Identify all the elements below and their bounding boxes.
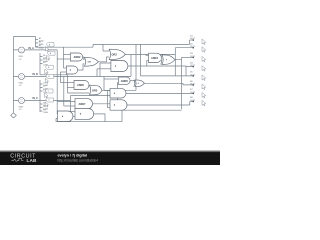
wire G1 input 1 [64, 54, 71, 56]
svg-text:OUT1: OUT1 [190, 83, 196, 85]
wire ANDdot2 in2 [97, 68, 111, 70]
flag input C [45, 98, 53, 107]
voltage source V3 [19, 98, 25, 104]
wire G1 input 2 [57, 58, 70, 60]
wire pair2 out / flag6 feed [144, 83, 193, 85]
svg-text:IN_B: IN_B [33, 74, 39, 76]
AND gate ANDdot2 [111, 61, 128, 72]
AND gate AND3 [149, 53, 162, 62]
wire left ground bus [13, 37, 15, 113]
wire V70.5 column [70, 96, 72, 112]
wire G3 input 1 [64, 67, 67, 69]
ground [11, 113, 17, 118]
wire V107.5 [107, 91, 109, 108]
flag input B [45, 74, 53, 83]
output flag 3 [190, 53, 206, 62]
svg-text:AND4: AND4 [151, 56, 159, 60]
wire row1 source [14, 49, 58, 51]
output flag 4 [190, 62, 206, 71]
output flag 5 [190, 72, 206, 81]
wire row2 source [14, 76, 132, 78]
wire fanout3 stubs [40, 84, 43, 91]
wire DgA in2 [71, 95, 111, 97]
wire G3 out jog [78, 64, 85, 70]
wire G6 in1 [57, 101, 75, 103]
wire top bus y44 [93, 43, 190, 45]
svg-text:IN_C: IN_C [33, 98, 39, 100]
svg-text:OUT1: OUT1 [190, 46, 196, 48]
wire pair2 in1 [104, 78, 118, 80]
wire G7 out [73, 115, 75, 117]
output flag 2 [190, 44, 206, 53]
wire G5 out riser [102, 44, 136, 90]
svg-text:AND6: AND6 [121, 79, 129, 83]
wire fanout3 vertical [39, 80, 41, 101]
wire flag2 feed [175, 48, 193, 76]
wire pair2 link [126, 80, 135, 82]
wire flag1 feed [190, 40, 194, 44]
wire G4 out [88, 84, 91, 86]
wire top-left loop [14, 36, 36, 38]
wire row3 source [14, 100, 71, 102]
svg-text:LAB: LAB [27, 158, 37, 163]
wire G5 in2 [68, 92, 90, 94]
wire G8 in1 [71, 111, 76, 113]
svg-text:OUT1: OUT1 [190, 74, 196, 76]
AND gate G3 [66, 66, 77, 74]
wire flag5 feed [141, 75, 194, 77]
svg-text:IN_A: IN_A [29, 47, 35, 50]
wire OR1 input1 [103, 44, 109, 51]
wire pair2 in2 [117, 82, 120, 84]
voltage source V2 [19, 74, 25, 80]
AND gate G6 [75, 99, 93, 109]
flag input A [46, 43, 54, 52]
wire fanout2 vertical [39, 53, 41, 75]
wire fanout2 stubs [40, 57, 43, 64]
XOR gate XOR1 [161, 55, 175, 65]
svg-text:OUT1: OUT1 [190, 100, 196, 102]
wire V97 [96, 69, 98, 77]
wire ANDdot2 in1 [100, 63, 111, 77]
AND gate G1 [70, 53, 82, 61]
svg-text:100Ω: 100Ω [39, 47, 44, 49]
wire ANDdot2 out [128, 65, 186, 67]
output flag 6 [190, 81, 206, 90]
flag input A [47, 51, 55, 60]
output flag 7 [190, 89, 206, 98]
AND gate pair2A [118, 77, 130, 84]
wire G6 out [93, 103, 110, 105]
wire AND3 in2 riser [147, 60, 149, 66]
wire fanout1 vertical [35, 37, 37, 48]
AND gate DgA [110, 88, 126, 98]
svg-text:OR2: OR2 [112, 53, 118, 57]
wire fanout4 stubs [40, 104, 43, 111]
flag input C [45, 89, 53, 98]
wire V57 column [56, 50, 58, 122]
wire fanout4 vertical [39, 101, 41, 113]
wire flag8 feed [190, 100, 194, 102]
wire XOR1 out [175, 57, 182, 109]
svg-text:OUT1: OUT1 [190, 38, 196, 40]
svg-text:http://circuitlab.com/c8a63e4: http://circuitlab.com/c8a63e4 [58, 159, 99, 163]
fanout3 labels [43, 82, 48, 94]
wire flag4 feed [186, 66, 194, 76]
svg-text:OUT1: OUT1 [190, 56, 196, 58]
svg-text:OR3: OR3 [92, 89, 98, 93]
OR gate G5 [90, 85, 103, 95]
wire G4 in2 [67, 87, 74, 89]
svg-text:AND2: AND2 [74, 55, 82, 59]
fanout2 labels [43, 55, 48, 67]
wire row2 upper [40, 74, 67, 76]
wire row1 upper [36, 44, 94, 47]
flag input B [45, 65, 53, 74]
wire G3 input 2 [60, 71, 66, 73]
wire V131 [130, 54, 132, 76]
fanout1 labels [39, 37, 44, 50]
voltage source V1 [19, 47, 25, 53]
output flag 8 [190, 97, 206, 106]
wire flag3 feed [182, 56, 194, 58]
AND gate G4 [74, 81, 89, 90]
svg-text:OUT1: OUT1 [190, 92, 196, 94]
svg-text:OR: OR [88, 62, 92, 64]
wire V60.5 column [59, 72, 61, 83]
wire G8 out path [56, 83, 182, 122]
OR gate OR1 [109, 49, 125, 59]
wire V67.5 column [66, 75, 68, 93]
wire AND3 in1 drop [146, 53, 149, 56]
wire V64 column [63, 47, 65, 106]
XOR gate pair2B [134, 80, 145, 87]
svg-text:evelyn / 7j digital: evelyn / 7j digital [58, 154, 88, 158]
svg-text:OUT1: OUT1 [190, 65, 196, 67]
svg-text:AND5: AND5 [77, 83, 85, 87]
svg-text:AND7: AND7 [79, 102, 87, 106]
wire DgB in2 [108, 107, 111, 109]
wire G1 out jog [83, 57, 84, 60]
wire G6 in2 [64, 105, 75, 107]
svg-text:100Ω: 100Ω [43, 112, 48, 114]
wire fanout1 stubs [36, 40, 39, 47]
wire DgB out [127, 101, 190, 105]
AND gate DgB [110, 100, 127, 110]
wire DgA out / flag7 feed [126, 92, 194, 94]
wire DgA in1 [104, 77, 110, 91]
wire G2 out [99, 57, 110, 62]
output flag 1 [190, 36, 206, 45]
wire OR1 out [125, 53, 175, 55]
AND gate G7 [57, 111, 72, 122]
wire G4 in1 [61, 82, 75, 84]
fanout4 labels [43, 102, 48, 114]
OR gate G2 [84, 57, 98, 66]
wire V140.5 [140, 44, 142, 76]
AND gate G8 [75, 109, 94, 120]
